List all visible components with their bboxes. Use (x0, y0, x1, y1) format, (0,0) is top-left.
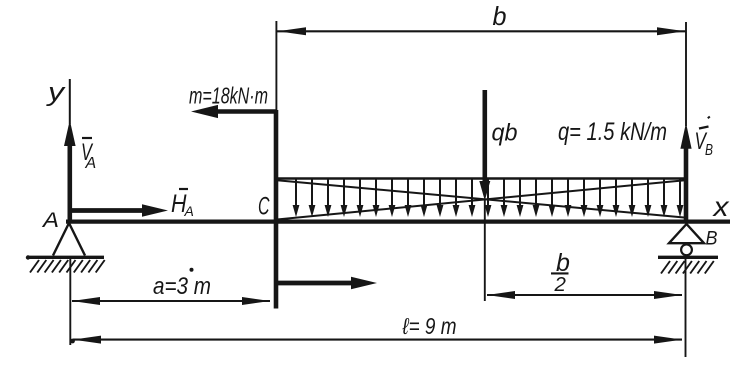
distributed load top line (276, 177, 687, 180)
force V_B (vertical reaction at B) (680, 123, 691, 220)
label V_B with overbar (695, 117, 714, 160)
svg-text:B: B (706, 228, 718, 250)
ground hatching at B (661, 261, 714, 274)
ground hatching at A (30, 260, 105, 273)
svg-text:C: C (258, 193, 270, 221)
svg-text:b: b (493, 1, 507, 31)
dimension line b (277, 27, 686, 35)
extension line below A (69, 258, 71, 345)
load envelope diagonal (ascending) (277, 180, 685, 219)
force V_A (vertical reaction at A) (64, 120, 76, 221)
beam / x axis line (66, 220, 730, 224)
svg-text:A: A (184, 203, 194, 219)
y axis (69, 79, 71, 124)
extension line below B (685, 258, 687, 357)
roller circle at B (681, 244, 692, 255)
svg-text:B: B (705, 142, 713, 159)
svg-text:x: x (711, 191, 729, 222)
dot over 3 (190, 268, 194, 272)
support B roller triangle (669, 224, 704, 243)
svg-text:qb: qb (492, 120, 518, 147)
svg-text:ℓ= 9 m: ℓ= 9 m (402, 313, 457, 339)
dimension line a=3m (72, 297, 270, 305)
extension line below qb (484, 200, 486, 301)
rigid post at C (274, 110, 279, 309)
label V_A with overbar (81, 138, 96, 172)
svg-text:m=18kN·m: m=18kN·m (189, 83, 268, 109)
svg-text:A: A (41, 209, 59, 232)
support A pin triangle (53, 223, 85, 256)
force H_A (horizontal reaction at A) (70, 204, 168, 217)
dimension line l=9m (73, 336, 682, 344)
distributed load arrows (293, 179, 684, 217)
svg-text:a=3 m: a=3 m (153, 273, 211, 300)
extension line above B (for dimension b) (685, 22, 687, 126)
label b/2 fraction (551, 249, 570, 296)
force arrow below C (276, 277, 377, 290)
moment force arrow m (191, 105, 276, 118)
label H_A with overbar (171, 189, 194, 219)
force qb (resultant) (479, 90, 490, 201)
dimension line b/2 (487, 291, 682, 299)
svg-text:2: 2 (554, 273, 567, 296)
extension line above C (for dimension b) (275, 21, 277, 112)
load envelope diagonal (descending) (277, 180, 684, 217)
ground line at B (658, 256, 718, 259)
svg-text:A: A (85, 155, 97, 172)
svg-text:q= 1.5 kN/m: q= 1.5 kN/m (558, 118, 667, 146)
svg-text:y: y (46, 77, 67, 107)
ground line at A (27, 256, 104, 259)
